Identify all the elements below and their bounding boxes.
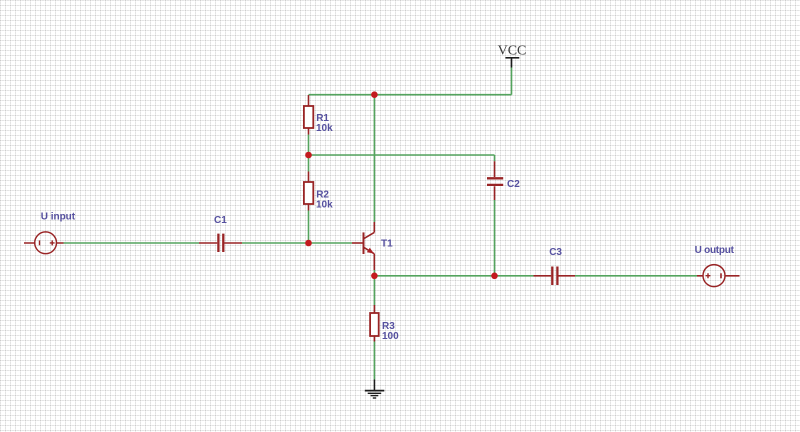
svg-text:T1: T1 [381,239,393,250]
svg-text:C2: C2 [507,179,520,190]
svg-text:100: 100 [382,331,399,342]
svg-text:10k: 10k [316,200,333,211]
svg-text:U input: U input [41,212,76,223]
svg-text:C3: C3 [549,247,562,258]
svg-text:10k: 10k [316,123,333,134]
svg-text:C1: C1 [214,215,227,226]
svg-text:U output: U output [695,245,735,256]
svg-text:VCC: VCC [498,44,527,59]
